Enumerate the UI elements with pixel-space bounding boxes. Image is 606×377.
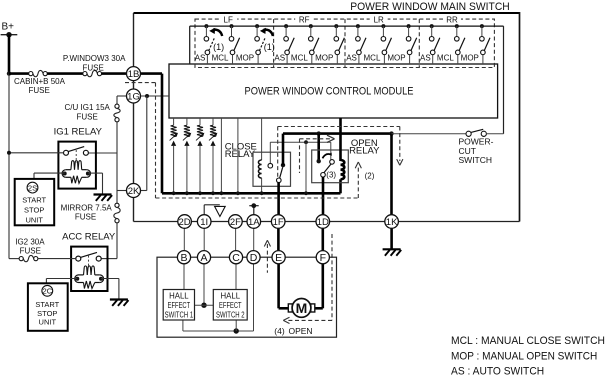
svg-text:RELAY: RELAY <box>349 146 380 157</box>
svg-text:B: B <box>180 252 187 264</box>
svg-text:(1): (1) <box>264 42 275 52</box>
svg-text:2F: 2F <box>230 217 241 228</box>
svg-text:EFFECT: EFFECT <box>168 301 191 310</box>
svg-text:C/U IG1 15A: C/U IG1 15A <box>65 103 111 112</box>
svg-text:1K: 1K <box>386 217 398 228</box>
svg-text:RELAY: RELAY <box>225 149 256 160</box>
svg-text:1B: 1B <box>128 69 140 80</box>
svg-text:2K: 2K <box>128 186 140 197</box>
svg-text:UNIT: UNIT <box>39 318 57 327</box>
svg-text:MCL: MCL <box>437 54 454 63</box>
svg-text:RF: RF <box>299 16 310 25</box>
svg-text:1A: 1A <box>248 217 260 228</box>
svg-text:MCL : MANUAL CLOSE SWITCH: MCL : MANUAL CLOSE SWITCH <box>451 335 605 347</box>
svg-text:SWITCH: SWITCH <box>459 155 493 165</box>
svg-text:FUSE: FUSE <box>77 112 98 121</box>
svg-text:LF: LF <box>224 16 233 25</box>
svg-text:MOP : MANUAL OPEN SWITCH: MOP : MANUAL OPEN SWITCH <box>451 350 597 362</box>
svg-text:E: E <box>275 252 282 264</box>
svg-text:START: START <box>35 300 59 309</box>
svg-text:IG2 30A: IG2 30A <box>15 238 45 247</box>
svg-text:OPEN: OPEN <box>288 326 312 336</box>
svg-text:FUSE: FUSE <box>83 64 104 73</box>
svg-text:START: START <box>22 196 46 205</box>
svg-text:2C: 2C <box>42 287 52 296</box>
svg-text:A: A <box>200 252 207 264</box>
svg-text:MOP: MOP <box>315 54 333 63</box>
svg-text:(2): (2) <box>365 171 375 180</box>
svg-text:MIRROR 7.5A: MIRROR 7.5A <box>61 203 113 212</box>
svg-text:HALL: HALL <box>221 292 241 301</box>
svg-text:D: D <box>250 252 258 264</box>
svg-text:MOP: MOP <box>387 54 405 63</box>
svg-text:F: F <box>320 252 326 264</box>
svg-text:IG1 RELAY: IG1 RELAY <box>54 127 103 138</box>
svg-text:P.WINDOW3 30A: P.WINDOW3 30A <box>63 54 126 63</box>
svg-text:2S: 2S <box>28 183 37 192</box>
svg-text:MCL: MCL <box>291 54 308 63</box>
svg-text:2D: 2D <box>179 217 191 228</box>
svg-text:FUSE: FUSE <box>75 213 96 222</box>
svg-text:M: M <box>296 300 308 316</box>
svg-text:MCL: MCL <box>364 54 381 63</box>
svg-text:AS: AS <box>274 54 285 63</box>
svg-text:(3): (3) <box>326 171 336 180</box>
svg-text:1F: 1F <box>273 217 284 228</box>
svg-text:MCL: MCL <box>212 54 229 63</box>
svg-text:HALL: HALL <box>169 292 189 301</box>
svg-text:STOP: STOP <box>37 309 57 318</box>
svg-text:MOP: MOP <box>461 54 479 63</box>
svg-text:STOP: STOP <box>24 206 44 215</box>
svg-text:B+: B+ <box>2 21 15 32</box>
svg-text:UNIT: UNIT <box>25 215 43 224</box>
svg-text:CABIN+B 50A: CABIN+B 50A <box>14 77 66 86</box>
svg-text:1I: 1I <box>200 217 208 228</box>
svg-text:SWITCH 2: SWITCH 2 <box>216 310 245 319</box>
svg-text:1G: 1G <box>127 91 140 102</box>
svg-text:MOP: MOP <box>236 54 254 63</box>
svg-text:ACC RELAY: ACC RELAY <box>62 231 116 242</box>
svg-text:RR: RR <box>446 16 458 25</box>
svg-text:POWER WINDOW CONTROL MODULE: POWER WINDOW CONTROL MODULE <box>245 86 414 98</box>
svg-text:C: C <box>232 252 240 264</box>
svg-text:1D: 1D <box>317 217 329 228</box>
svg-text:AS: AS <box>346 54 357 63</box>
svg-text:SWITCH 1: SWITCH 1 <box>165 310 194 319</box>
svg-text:POWER WINDOW MAIN SWITCH: POWER WINDOW MAIN SWITCH <box>350 1 510 13</box>
svg-text:FUSE: FUSE <box>29 86 50 95</box>
svg-text:FUSE: FUSE <box>20 246 41 255</box>
svg-text:AS: AS <box>195 54 206 63</box>
svg-text:EFFECT: EFFECT <box>219 301 242 310</box>
svg-text:AS : AUTO SWITCH: AS : AUTO SWITCH <box>451 365 544 377</box>
svg-text:(4): (4) <box>274 326 285 336</box>
svg-text:(1): (1) <box>213 42 224 52</box>
svg-text:AS: AS <box>420 54 431 63</box>
svg-text:LR: LR <box>374 16 384 25</box>
